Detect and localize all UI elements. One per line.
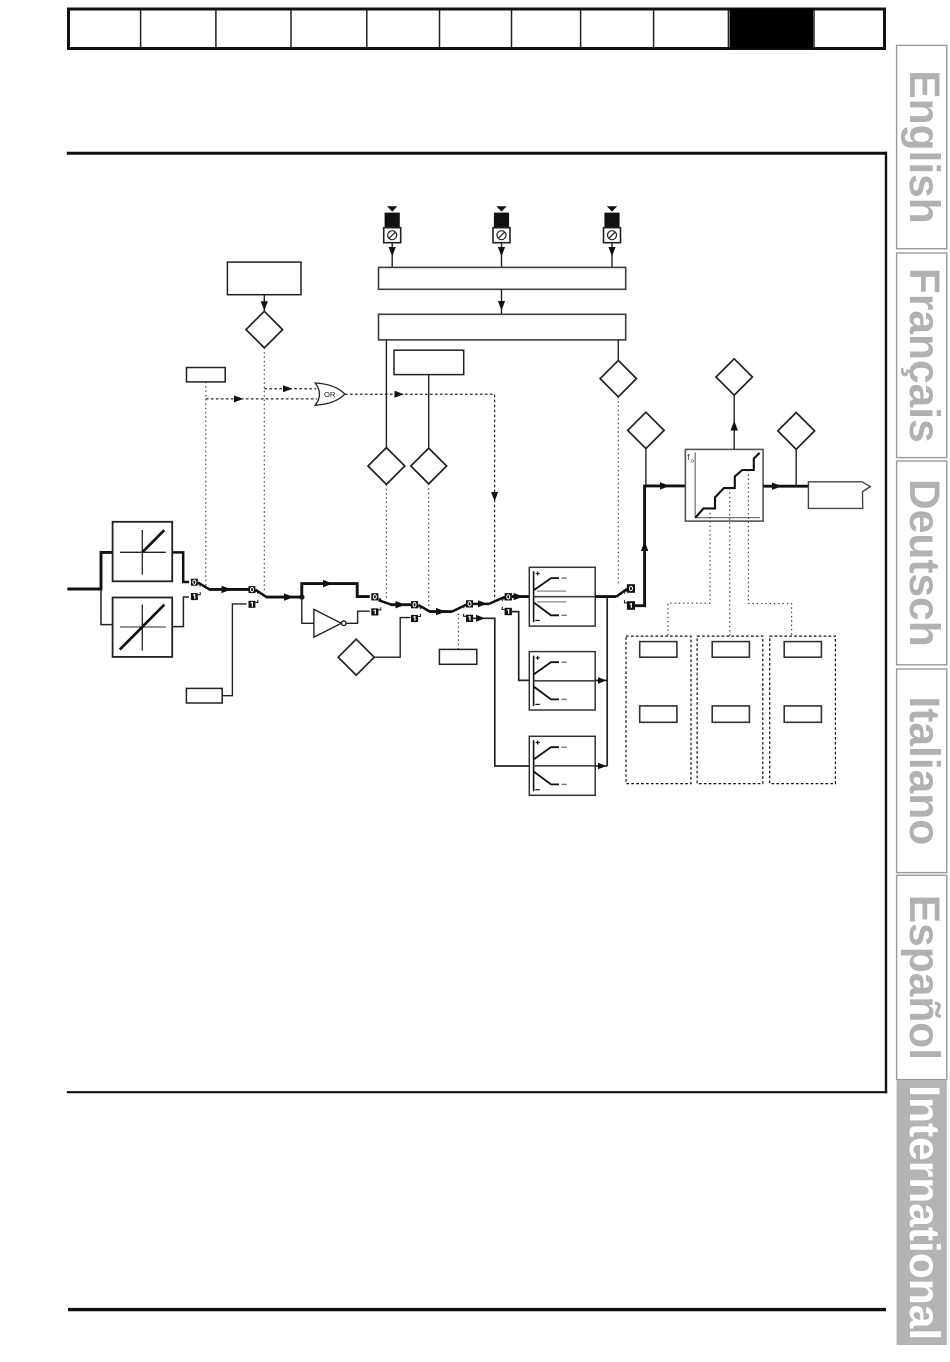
wire R2 output to bus [595,677,607,684]
small parameter box left [187,368,226,382]
wide box: analog reference inputs [379,267,626,289]
wire wide box 2 to diamond D5 [617,340,619,361]
wide box: reference scaling [379,314,626,340]
dashed group box 1 [626,636,691,784]
switch SW1 wiper [198,582,210,589]
NOT gate U2 [314,609,346,637]
OR input wire lower [206,395,317,402]
diamond D9 [778,413,815,487]
wire R3 output to bus [595,763,607,770]
wire junction to NOT gate [302,597,314,623]
wire SW1 to SW2 [209,586,249,593]
group 2 parameter box lower [712,706,749,722]
group 2 parameter box upper [712,642,749,658]
OR gate U1 [315,383,345,405]
sidebar tab Italiano [897,669,947,873]
wire SW5 to SW6 [473,597,505,607]
switch SW4 input 1 [411,615,418,622]
sidebar tab Français [897,253,947,458]
control wire box down to switch SW1 [205,382,207,589]
switch SW2 input 1 [249,601,256,608]
switch SW2 wiper [255,590,266,597]
parameter box top-left [227,262,301,295]
wire SW6 to limit block R1 [512,593,529,600]
wire SW2 to junction [266,593,302,600]
sidebar tab English [897,45,947,248]
wire R1 output to SW7 [595,589,627,597]
switch SW3 input 0 [371,593,378,600]
arrow to diamond D1 [261,295,268,312]
terminal T2 [493,206,510,267]
diamond D8 above f(x) [716,359,752,450]
wire SW5 output 1 down to limit block R3 [473,615,529,766]
dashed group box 2 [697,636,763,784]
switch SW3 input 1 [371,608,378,615]
wire wide box 2 to diamond DA [385,340,387,448]
parameter box SW5 control [439,649,476,664]
output flag tag [808,482,870,509]
switch SW2 input 0 [249,586,256,593]
switch SW6 output 1 [505,608,512,615]
control drop f(x) to dashed group 1 [668,508,710,636]
group 1 parameter box upper [640,642,677,658]
wire SW6 output 1 down to limit block R2 [512,612,529,681]
group 3 parameter box upper [784,642,821,658]
control wire to SW5 [457,612,459,649]
wire SW4 to SW5 [430,605,467,616]
input wire from frame edge [67,552,112,589]
clamp block A (unipolar) [113,522,173,582]
switch SW1 input 0 [191,579,198,586]
sidebar tab Español [897,875,947,1079]
svg-text:International: International [900,1085,947,1340]
control wire DB to switch SW4 [428,484,430,607]
wire SW7 up to f(x) block [635,482,686,606]
group 3 parameter box lower [784,706,821,722]
diamond DA [368,448,405,485]
wire clamp A to SW1 input 0 [172,552,189,582]
switch SW7 output 0 [627,584,635,593]
sidebar tab Deutsch [897,461,947,665]
control drop f(x) to dashed group 2 [729,488,731,636]
header tab table [69,9,885,49]
control drop f(x) to dashed group 3 [748,470,791,636]
control wire D1 down to switch SW2 [263,348,265,592]
switch SW6 output 0 [505,593,512,600]
OR output wire to switch SW5 control [345,391,498,602]
arrow wide box 1 to wide box 2 [498,289,505,314]
OR input wire upper [264,385,316,392]
terminal T3 [604,206,621,267]
active tab (black cell) [730,9,814,49]
control wire DA to switch SW3 [385,485,387,599]
diagram frame bottom edge [67,1091,887,1093]
svg-text:Français: Français [900,268,947,443]
output bus joining R1 R2 R3 [606,597,608,766]
svg-text:Deutsch: Deutsch [900,479,947,647]
switch SW5 output 0 [466,600,473,607]
footer rule [68,1308,886,1311]
switch SW4 input 0 [411,601,418,608]
parameter box Pr1.36 [394,350,464,374]
limit block R3 [529,736,595,795]
switch SW3 wiper [379,600,392,605]
svg-text:English: English [900,70,947,223]
svg-text:Italiano: Italiano [900,696,947,845]
group 1 parameter box lower [640,706,677,722]
f(x) staircase block [685,449,763,521]
switch SW1 input 1 [191,593,198,600]
limit block R1 [529,567,595,626]
diamond DB [411,448,447,484]
wire clamp B to SW1 input 1 [172,597,189,627]
wire D6 to SW4 input 1 [374,618,410,658]
switch SW4 wiper [418,605,430,612]
switch SW7 output 1 [627,601,635,610]
wire f(x) output [763,483,808,490]
clamp block B (bipolar) [113,598,173,657]
wire box to SW2 input 1 [222,604,246,696]
parameter box bottom-left [186,688,222,703]
diagram frame right edge [885,152,887,1093]
diamond D7 [628,412,664,486]
terminal T1 [384,206,401,267]
sidebar tab International [897,1080,947,1345]
input branch wire to clamp B [101,589,113,625]
dashed group box 3 [770,636,836,784]
diamond D5 [600,360,636,396]
wire box Pr1.36 to diamond DB [428,375,430,448]
svg-text:Español: Español [900,895,947,1060]
wire junction top path to SW3 input 0 [302,580,370,597]
switch SW5 output 1 [466,615,473,622]
diamond D1 [246,311,283,348]
control wire D5 to switch SW7 [617,397,619,585]
junction node [299,594,304,599]
wire SW3 to SW4 [391,601,411,608]
diamond D6 [338,639,374,675]
wire NOT gate to SW3 input 1 [346,611,370,623]
limit block R2 [529,652,595,710]
diagram frame top edge [67,152,887,155]
